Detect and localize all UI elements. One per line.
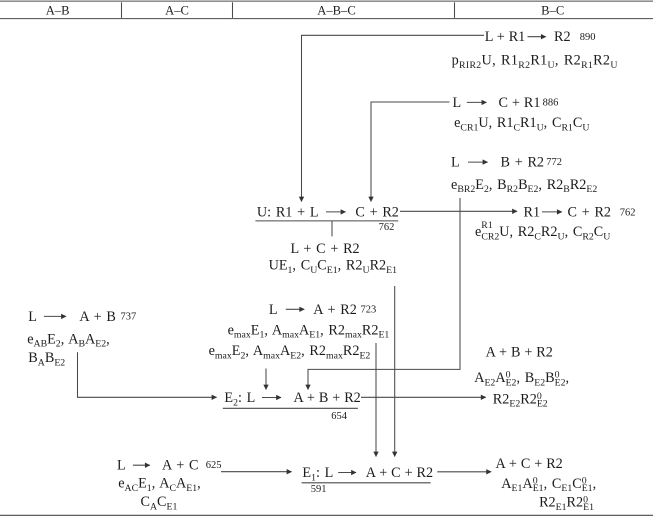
svg-text:eACE1, ACAE1,: eACE1, ACAE1,: [118, 476, 201, 494]
svg-text:A–C: A–C: [165, 3, 189, 17]
svg-text:CACE1: CACE1: [141, 494, 178, 512]
wire from U-complex up to L+R1 reaction: [302, 35, 485, 201]
arrow from L+C+R2 block down to E1 node: [394, 286, 396, 457]
svg-text:eABE2, ABAE2,: eABE2, ABAE2,: [27, 331, 110, 349]
svg-text:654: 654: [331, 411, 348, 422]
svg-text:eBR2E2, BR2BE2, R2BR2E2: eBR2E2, BR2BE2, R2BR2E2: [451, 177, 597, 195]
svg-text:625: 625: [206, 460, 222, 471]
svg-text:L: L: [453, 95, 462, 111]
svg-text:A + R2: A + R2: [313, 302, 357, 318]
svg-text:BABE2: BABE2: [28, 350, 65, 368]
svg-text:A + C + R2: A + C + R2: [496, 456, 563, 472]
svg-text:C + R2: C + R2: [355, 204, 399, 220]
svg-text:emaxE2, AmaxAE2, R2maxR2E2: emaxE2, AmaxAE2, R2maxR2E2: [209, 343, 371, 361]
svg-text:L + R1: L + R1: [485, 29, 526, 45]
header bottom rule: [0, 18, 653, 20]
svg-text:R2E2R2E20: R2E2R2E20: [493, 391, 548, 410]
svg-text:UE1, CUCE1, R2UR2E1: UE1, CUCE1, R2UR2E1: [269, 258, 398, 276]
svg-text:pRIR2U, R1R2R1U, R2R1R2U: pRIR2U, R1R2R1U, R2R1R2U: [452, 53, 618, 71]
svg-text:762: 762: [379, 222, 395, 233]
svg-text:E1: L: E1: L: [302, 465, 333, 483]
svg-text:emaxE1, AmaxAE1, R2maxR2E1: emaxE1, AmaxAE1, R2maxR2E1: [228, 322, 390, 340]
svg-text:AE2AE20, BE2BE20,: AE2AE20, BE2BE20,: [474, 370, 569, 389]
svg-text:890: 890: [580, 32, 596, 43]
header separator 2: [232, 2, 234, 18]
svg-text:772: 772: [546, 157, 562, 168]
svg-text:737: 737: [121, 311, 137, 322]
svg-text:591: 591: [311, 484, 327, 495]
svg-text:U: R1 + L: U: R1 + L: [257, 204, 319, 220]
bottom rule: [0, 514, 653, 516]
wire from A+B block to E2 node: [78, 352, 217, 397]
underline U node: [255, 220, 398, 222]
svg-text:A + B + R2: A + B + R2: [486, 345, 553, 361]
tick below U node: [331, 221, 333, 237]
arrow E1 node to products: [437, 471, 491, 473]
svg-text:L: L: [269, 302, 278, 318]
header separator 1: [121, 2, 123, 18]
wire from A+C block to E1 node: [221, 471, 292, 473]
svg-text:A–B–C: A–B–C: [317, 3, 356, 17]
underline E1 node: [302, 482, 431, 484]
svg-text:A + B + R2: A + B + R2: [294, 390, 361, 406]
down arrow from A+R2 block to E2 node: [265, 369, 267, 390]
svg-text:886: 886: [543, 97, 559, 108]
svg-text:A + C + R2: A + C + R2: [366, 465, 433, 481]
svg-text:L: L: [28, 309, 37, 325]
svg-text:B–C: B–C: [541, 3, 564, 17]
svg-text:A + C: A + C: [162, 458, 198, 474]
header top rule: [0, 0, 653, 2]
svg-text:AE1AE10, CE1CE10,: AE1AE10, CE1CE10,: [501, 475, 596, 494]
svg-text:A–B: A–B: [46, 3, 70, 17]
svg-text:L: L: [117, 458, 126, 474]
arrow U node to R1: [400, 210, 517, 212]
svg-text:eCR1U, R1CR1U, CR1CU: eCR1U, R1CR1U, CR1CU: [454, 115, 589, 133]
underline E2 node: [223, 407, 358, 409]
svg-text:723: 723: [361, 304, 377, 315]
svg-text:762: 762: [620, 208, 636, 219]
svg-text:L: L: [451, 155, 460, 171]
svg-text:C + R1: C + R1: [499, 95, 541, 111]
svg-text:B + R2: B + R2: [501, 155, 545, 171]
arrow from A+R2 block down to E1 node: [375, 343, 377, 457]
svg-text:R2E1R2E10: R2E1R2E10: [539, 494, 594, 513]
svg-text:L + C + R2: L + C + R2: [291, 241, 360, 257]
svg-text:E2: L: E2: L: [224, 390, 255, 408]
arrow E2 node to R2_E2 species: [361, 396, 486, 398]
svg-text:A + B: A + B: [79, 309, 115, 325]
svg-text:R1: R1: [524, 204, 541, 220]
wire from R1 branch down-left into E2 node: [308, 198, 460, 390]
wire from C+R2 product up to L->C+R1 reaction: [371, 102, 450, 202]
svg-text:C + R2: C + R2: [568, 204, 612, 220]
header separator 3: [454, 2, 456, 18]
svg-text:R2: R2: [554, 29, 571, 45]
svg-text:eCR2R1U, R2CR2U, CR2CU: eCR2R1U, R2CR2U, CR2CU: [475, 220, 610, 242]
